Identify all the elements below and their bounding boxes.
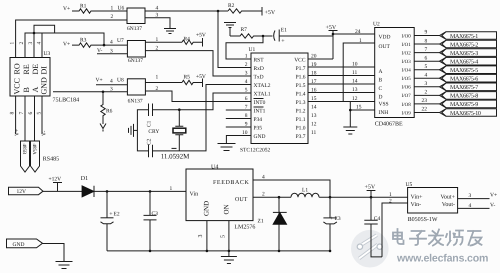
- junction RxD node: [217, 10, 220, 13]
- svg-text:CRY: CRY: [148, 129, 159, 135]
- svg-text:I/O1: I/O1: [402, 42, 412, 48]
- svg-text:485A: 485A: [31, 144, 37, 156]
- svg-text:2: 2: [425, 90, 428, 96]
- wire MCU P1.5 to U2 C: [308, 83, 375, 85]
- wire U3 A to connector: [34, 96, 36, 141]
- svg-text:C1: C1: [147, 120, 153, 127]
- wire U3 DI stub: [41, 33, 43, 58]
- svg-text:MAX6675-2: MAX6675-2: [450, 42, 478, 48]
- svg-text:V+: V+: [15, 129, 21, 136]
- svg-text:75LBC184: 75LBC184: [53, 98, 80, 104]
- capacitor C2: [147, 138, 153, 157]
- net tag MAX6675-9: [440, 100, 497, 108]
- resistor R6: [101, 92, 113, 124]
- svg-text:+5V: +5V: [265, 10, 276, 16]
- connector tag 485A: [31, 141, 40, 172]
- svg-text:B0505S-1W: B0505S-1W: [408, 217, 438, 223]
- svg-text:+5V: +5V: [196, 74, 206, 80]
- svg-text:11.0592M: 11.0592M: [161, 153, 190, 161]
- svg-text:V-: V-: [97, 48, 102, 54]
- svg-text:U6: U6: [118, 6, 125, 12]
- svg-text:L1: L1: [302, 188, 308, 194]
- capacitor C3: [144, 191, 159, 251]
- svg-text:RxD: RxD: [254, 66, 264, 72]
- U4 pin5 stub: [228, 221, 230, 251]
- svg-text:INT0: INT0: [254, 100, 266, 106]
- power +5V row3: [196, 74, 206, 87]
- svg-text:INT1: INT1: [254, 108, 266, 114]
- svg-text:+5V: +5V: [365, 185, 376, 191]
- svg-text:3: 3: [469, 193, 472, 199]
- svg-text:RST: RST: [254, 57, 265, 63]
- svg-text:U2: U2: [373, 22, 380, 28]
- wire U3 DE loop: [34, 25, 55, 57]
- svg-text:P1.5: P1.5: [296, 83, 306, 89]
- svg-text:P1.2: P1.2: [296, 108, 306, 114]
- svg-text:Z1: Z1: [258, 219, 264, 225]
- svg-text:3: 3: [110, 86, 113, 92]
- ground under U6: [164, 29, 176, 34]
- resistor R3: [72, 38, 127, 48]
- svg-text:6: 6: [245, 96, 248, 102]
- junction crystal top: [178, 108, 181, 111]
- wire U7 pin1 to R4: [145, 41, 182, 43]
- input tag GND: [7, 239, 43, 248]
- svg-text:3: 3: [245, 71, 248, 77]
- svg-text:MAX6675-10: MAX6675-10: [450, 111, 481, 117]
- wire U2 INH: [350, 109, 374, 111]
- svg-text:6: 6: [28, 112, 34, 115]
- svg-text:6N137: 6N137: [128, 58, 143, 64]
- svg-text:Vin: Vin: [190, 192, 199, 198]
- wire U2 I/O6 to MAX6675-7: [414, 86, 439, 88]
- svg-text:R6: R6: [106, 109, 113, 115]
- wire 12V to D1: [43, 190, 83, 192]
- wire MCU P1.7 to U2 A: [308, 66, 375, 68]
- svg-text:+5V: +5V: [196, 33, 206, 39]
- ground (U2): [343, 127, 357, 134]
- svg-text:A: A: [379, 69, 383, 75]
- svg-text:Vin+: Vin+: [411, 195, 424, 201]
- svg-text:Vout+: Vout+: [440, 195, 455, 201]
- svg-text:GND: GND: [13, 242, 25, 248]
- wire MCU VCC to +5V: [308, 58, 333, 60]
- svg-text:V+: V+: [96, 78, 103, 84]
- svg-text:U5: U5: [406, 182, 413, 188]
- capacitor C1: [147, 104, 153, 128]
- junction reset node: [262, 35, 265, 38]
- svg-text:U4: U4: [211, 165, 218, 171]
- svg-text:ON: ON: [223, 204, 231, 214]
- crystal Y1: [173, 110, 186, 151]
- svg-text:3: 3: [110, 48, 113, 54]
- wire U2 I/O0 to MAX6675-1: [414, 35, 439, 37]
- watermark logo circle: [351, 230, 389, 268]
- net tag MAX6675-7: [440, 83, 497, 91]
- opto-coupler U7 6N137: [110, 37, 159, 64]
- svg-text:6N137: 6N137: [128, 99, 143, 105]
- regulator U4 LM2576: [186, 165, 255, 231]
- junction bus E3 node: [329, 250, 332, 253]
- svg-text:XTAL1: XTAL1: [254, 91, 271, 97]
- svg-text:MAX6675-7: MAX6675-7: [450, 85, 478, 91]
- ground (bus): [221, 251, 237, 264]
- watermark text dianzifashaoyou: [394, 230, 483, 247]
- wire U8 pin1 to R5: [145, 82, 182, 84]
- svg-text:TxD: TxD: [254, 74, 264, 80]
- svg-text:14: 14: [311, 105, 317, 111]
- svg-text:I/O7: I/O7: [402, 93, 412, 99]
- svg-text:P35: P35: [254, 125, 263, 131]
- svg-text:C: C: [379, 86, 383, 92]
- MCU right pin numbers: [311, 54, 317, 137]
- wire L1 to U5 Vin+: [319, 196, 408, 198]
- wire GND tag to ground: [43, 244, 65, 262]
- wire U7 pin3: [97, 53, 127, 55]
- wire U8 pin2 to MCU INT0: [145, 91, 251, 102]
- capacitor E3: [323, 197, 340, 251]
- svg-text:+: +: [330, 216, 334, 222]
- svg-text:2: 2: [111, 14, 114, 20]
- U2 left pin numbers: [352, 29, 362, 111]
- wire D1 to U4 Vin: [94, 190, 186, 192]
- input tag 12V: [9, 187, 44, 195]
- wire +5V to U2 VDD: [333, 33, 375, 35]
- svg-text:3: 3: [198, 235, 204, 238]
- zener Z1: [258, 197, 287, 251]
- wire U6 pin3 to ground: [145, 18, 170, 29]
- svg-text:1: 1: [170, 186, 173, 192]
- svg-text:V+: V+: [63, 6, 70, 12]
- svg-text:P1.0: P1.0: [296, 125, 306, 131]
- svg-text:4: 4: [110, 39, 113, 45]
- wire U2 I/O5 to MAX6675-6: [414, 77, 439, 79]
- resistor R2: [228, 3, 262, 13]
- svg-text:+12V: +12V: [49, 177, 62, 183]
- wire U3 RE/DI net to U7 pin4: [25, 33, 104, 58]
- resistor R4: [182, 37, 203, 45]
- svg-text:8: 8: [10, 112, 16, 115]
- resistor R7: [230, 27, 273, 38]
- opto-coupler U8 6N137: [110, 75, 159, 105]
- svg-text:I/O3: I/O3: [402, 59, 412, 65]
- wire U8 pin3: [53, 91, 127, 93]
- svg-text:C3: C3: [152, 211, 159, 217]
- svg-text:E1: E1: [281, 28, 287, 34]
- ground (reset circuit): [224, 23, 236, 37]
- wire MCU P1.3 / U2 VSS row: [308, 101, 375, 103]
- svg-text:RO: RO: [12, 63, 21, 74]
- svg-text:MAX6675-8: MAX6675-8: [450, 94, 478, 100]
- svg-text:P1.6: P1.6: [296, 74, 306, 80]
- svg-text:1: 1: [156, 75, 159, 81]
- wire MCU XTAL1 to crystal top: [153, 93, 252, 110]
- wire U2 I/O8 to MAX6675-9: [414, 103, 439, 105]
- svg-text:E3: E3: [335, 216, 341, 222]
- svg-text:OUT: OUT: [379, 44, 391, 50]
- svg-text:INH: INH: [379, 110, 389, 116]
- svg-text:12: 12: [311, 122, 317, 128]
- dcdc U5 B0505S-1W: [406, 182, 458, 223]
- svg-text:I/O0: I/O0: [402, 33, 412, 39]
- wire RxD vertical to MCU pin2: [218, 11, 251, 68]
- wire U2 I/O9 to MAX6675-10: [414, 112, 439, 114]
- junction U7 pin4 node: [103, 44, 106, 47]
- svg-text:2: 2: [245, 62, 248, 68]
- svg-text:MAX6675-3: MAX6675-3: [450, 51, 478, 57]
- svg-text:U8: U8: [117, 78, 124, 84]
- svg-text:P1.7: P1.7: [296, 66, 306, 72]
- junction +5V/C4 node: [370, 196, 373, 199]
- mux U2 CD4067BE: [373, 22, 414, 128]
- svg-text:1: 1: [389, 192, 392, 198]
- svg-text:1: 1: [111, 6, 114, 12]
- svg-text:GND: GND: [254, 134, 266, 140]
- capacitor C4: [364, 197, 382, 257]
- wire MCU P1.6 to U2 B: [308, 75, 375, 77]
- net tag MAX6675-4: [440, 57, 497, 65]
- svg-text:I/O8: I/O8: [402, 102, 412, 108]
- svg-text:7: 7: [425, 47, 428, 53]
- svg-text:8: 8: [425, 38, 428, 44]
- svg-text:LM2576: LM2576: [234, 225, 255, 231]
- svg-text:FEEDBACK: FEEDBACK: [213, 180, 250, 186]
- IC U3 75LBC184: [10, 51, 79, 104]
- wire MCU P34 stub: [226, 118, 251, 120]
- connector tag 485B: [21, 141, 30, 172]
- svg-text:U1: U1: [249, 47, 256, 53]
- svg-text:V-: V-: [42, 131, 48, 136]
- junction R6 node: [102, 91, 105, 94]
- svg-text:MAX6675-5: MAX6675-5: [450, 68, 478, 74]
- wire MCU XTAL2 to crystal bottom: [153, 85, 252, 151]
- wire U5 Vin-: [382, 203, 408, 257]
- junction Z1 node: [278, 196, 281, 199]
- wire U2 I/O1 to MAX6675-2: [414, 43, 439, 45]
- wire MCU P35 stub: [226, 126, 251, 128]
- svg-text:VDD: VDD: [379, 35, 391, 41]
- svg-text:P1.3: P1.3: [296, 100, 306, 106]
- wire U7 pin2 to MCU TxD: [145, 51, 251, 76]
- junction INH node: [349, 109, 352, 112]
- wire U2 I/O2 to MAX6675-3: [414, 52, 439, 54]
- U2 right pin numbers: [422, 30, 428, 113]
- wire U2 I/O7 to MAX6675-8: [414, 94, 439, 96]
- svg-text:4: 4: [110, 79, 113, 85]
- svg-text:I/O2: I/O2: [402, 51, 412, 57]
- net tag MAX6675-1: [440, 32, 497, 40]
- svg-text:VSS: VSS: [379, 102, 389, 108]
- svg-text:P1.1: P1.1: [296, 117, 306, 123]
- svg-text:13: 13: [311, 113, 317, 119]
- net tag MAX6675-2: [440, 40, 497, 48]
- svg-text:I/O6: I/O6: [402, 85, 412, 91]
- ground bus: [107, 250, 330, 252]
- svg-text:R3: R3: [80, 38, 87, 44]
- svg-text:MAX6675-1: MAX6675-1: [450, 34, 478, 40]
- wire U4 FEEDBACK to output node: [253, 180, 330, 197]
- junction E3/feedback node: [329, 196, 332, 199]
- svg-text:485B: 485B: [21, 144, 27, 156]
- wire U6 pin4 to R2 and RxD: [145, 10, 228, 12]
- wire MCU P1.4 to U2 D: [308, 92, 375, 94]
- svg-text:1: 1: [10, 42, 16, 45]
- svg-text:I/O4: I/O4: [402, 68, 412, 74]
- svg-text:I/O5: I/O5: [402, 76, 412, 82]
- net tag MAX6675-8: [440, 92, 497, 100]
- svg-text:MAX6675-6: MAX6675-6: [450, 77, 478, 83]
- svg-text:RS485: RS485: [43, 157, 59, 163]
- net arrow V- below R6: [100, 124, 106, 132]
- wire U2 I/O4 to MAX6675-5: [414, 69, 439, 71]
- capacitor E1: [274, 28, 288, 45]
- svg-text:6: 6: [425, 55, 428, 61]
- svg-text:C2: C2: [147, 138, 153, 145]
- svg-text:VCC: VCC: [12, 78, 21, 94]
- capacitor E2: [101, 191, 120, 251]
- power +5V (MCU/U2): [326, 25, 338, 59]
- svg-text:GND: GND: [202, 201, 210, 216]
- svg-text:5: 5: [425, 64, 428, 70]
- net tag MAX6675-5: [440, 66, 497, 74]
- net tag MAX6675-10: [440, 109, 497, 117]
- svg-text:MAX6675-4: MAX6675-4: [450, 60, 478, 66]
- opto-coupler U6 6N137: [111, 6, 159, 33]
- junction +5V/VDD node: [332, 33, 335, 36]
- wire crystal left leg: [137, 110, 148, 151]
- ground (crystal, pointing left): [129, 124, 138, 137]
- svg-text:DI: DI: [39, 66, 48, 75]
- ground (MCU): [218, 144, 236, 151]
- svg-text:C4: C4: [374, 216, 381, 222]
- svg-text:4: 4: [469, 203, 472, 209]
- MCU U1 STC12C2052: [240, 47, 308, 154]
- svg-text:P34: P34: [254, 117, 263, 123]
- svg-text:11: 11: [311, 130, 317, 136]
- net tag MAX6675-6: [440, 74, 497, 82]
- power +5V bar (RxD pullup): [262, 7, 276, 16]
- power +12V: [49, 177, 63, 192]
- svg-text:23: 23: [422, 98, 428, 104]
- wire U8 pin4: [96, 84, 127, 86]
- svg-text:E2: E2: [114, 212, 120, 218]
- svg-text:R1: R1: [80, 4, 87, 10]
- U4 pin3 stub: [206, 221, 208, 251]
- resistor R5: [182, 75, 203, 85]
- svg-text:V+: V+: [63, 42, 70, 48]
- wire U3 B to connector: [24, 96, 26, 141]
- svg-text:V-: V-: [490, 202, 495, 208]
- wire VSS/INH to ground: [349, 102, 351, 128]
- wire U5 pin4 out: [458, 207, 490, 209]
- svg-text:22: 22: [422, 107, 428, 113]
- svg-text:B: B: [22, 87, 31, 92]
- junction bus nodes: [149, 250, 152, 253]
- svg-text:D1: D1: [81, 176, 88, 182]
- svg-text:U3: U3: [44, 51, 51, 57]
- svg-text:XTAL2: XTAL2: [254, 83, 271, 89]
- svg-text:R5: R5: [184, 75, 191, 81]
- svg-text:7: 7: [19, 112, 25, 115]
- svg-text:D: D: [379, 95, 383, 101]
- svg-text:www.elecfans.com: www.elecfans.com: [396, 253, 488, 265]
- svg-text:4: 4: [425, 73, 428, 79]
- svg-text:5: 5: [221, 235, 227, 238]
- MCU left pin numbers: [242, 54, 248, 137]
- diode D1: [81, 176, 94, 197]
- polarity dash near C2: [172, 147, 177, 149]
- wire U5 pin3 out: [458, 198, 490, 200]
- inductor L1: [291, 188, 319, 198]
- wire U2 OUT to MCU P1.3: [343, 43, 375, 102]
- svg-text:2: 2: [389, 198, 392, 204]
- svg-text:2: 2: [262, 192, 265, 198]
- svg-text:OUT: OUT: [235, 197, 248, 203]
- power +5V (output): [365, 185, 376, 198]
- svg-text:1: 1: [245, 54, 248, 60]
- svg-text:2: 2: [19, 42, 25, 45]
- wire reset node to MCU RST: [226, 36, 263, 59]
- svg-text:MAX6675-9: MAX6675-9: [450, 102, 478, 108]
- ground (input): [56, 262, 73, 269]
- wire U3 RO to U6 pin2: [16, 20, 127, 58]
- wire MCU GND to ground: [226, 136, 251, 144]
- svg-text:RE: RE: [22, 64, 31, 74]
- wire U3 VCC to V+: [15, 96, 17, 134]
- wire E1 to +5V rail: [279, 35, 333, 37]
- svg-text:P3.7: P3.7: [296, 134, 306, 140]
- svg-text:Vin-: Vin-: [411, 202, 422, 208]
- wire U3 GND to V-: [41, 96, 43, 134]
- svg-text:9: 9: [425, 30, 428, 36]
- svg-text:STC12C2052: STC12C2052: [240, 148, 271, 154]
- svg-text:Vout-: Vout-: [442, 202, 455, 208]
- resistor R1: [72, 4, 127, 14]
- wire U4 OUT to L1: [253, 196, 291, 198]
- junction DE node: [33, 32, 36, 35]
- power +5V row2: [196, 33, 206, 47]
- svg-text:3: 3: [28, 42, 34, 45]
- wire U2 I/O3 to MAX6675-4: [414, 60, 439, 62]
- svg-text:12V: 12V: [17, 189, 27, 195]
- svg-text:I/O9: I/O9: [402, 110, 412, 116]
- svg-text:B: B: [379, 78, 383, 84]
- junction E2 node: [106, 190, 109, 193]
- wire MCU INT1 stub: [226, 109, 251, 111]
- net tag MAX6675-3: [440, 49, 497, 57]
- svg-text:VCC: VCC: [294, 57, 306, 63]
- svg-text:GND: GND: [39, 77, 48, 95]
- svg-text:6N137: 6N137: [127, 26, 142, 32]
- svg-text:V+: V+: [490, 193, 497, 199]
- svg-text:U7: U7: [117, 38, 124, 44]
- svg-text:R7: R7: [241, 27, 248, 33]
- svg-text:3: 3: [425, 81, 428, 87]
- svg-text:R2: R2: [228, 3, 235, 9]
- junction C3 node: [149, 190, 152, 193]
- svg-text:CD4067BE: CD4067BE: [375, 122, 403, 128]
- svg-text:P1.4: P1.4: [296, 91, 306, 97]
